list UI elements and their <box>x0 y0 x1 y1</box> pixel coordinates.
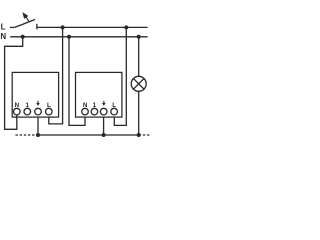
device A2 terminal N <box>82 108 89 115</box>
wire extension bus dashed left <box>16 134 39 136</box>
device A2 terminal 1 <box>91 108 98 115</box>
device A2 terminal label load arrow <box>102 101 106 106</box>
wire L feed device A1: down between boxes, left, up to L terminal <box>49 27 63 124</box>
wire lamp E1 top lead <box>138 37 140 77</box>
wire device A2 load drop <box>103 117 105 135</box>
device A1 terminal 1 <box>24 108 31 115</box>
lamp E1 <box>131 76 146 91</box>
wire device A1 load drop <box>37 117 39 135</box>
junction dot L to device A1 <box>61 25 65 29</box>
junction dot N to device A1 <box>21 35 25 39</box>
wire N rail <box>10 36 147 38</box>
wire N feed device A2: down between boxes, right, up <box>69 37 85 126</box>
device A2 terminal load <box>100 108 107 115</box>
wire N feed device A1: down, left, down, right, up <box>5 37 23 130</box>
device A2 box <box>76 72 122 117</box>
junction dot L to device A2 <box>124 25 128 29</box>
svg-text:N: N <box>0 32 6 41</box>
device A1 terminal N <box>13 108 20 115</box>
junction dot N to device A2 <box>67 35 71 39</box>
wire L rail left stub <box>10 26 15 28</box>
device A1 terminal label load arrow <box>36 101 40 106</box>
wire extension bus dashed right <box>139 134 150 136</box>
switch S1 contact tick <box>36 24 38 30</box>
device A1 box <box>12 72 58 117</box>
device A2 terminal L <box>111 108 118 115</box>
switch S1 lever <box>15 20 35 28</box>
wire L rail <box>37 26 148 28</box>
junction dot bus lamp <box>137 133 141 137</box>
switch S1 actuator arrow <box>22 12 29 22</box>
device A1 terminal L <box>46 108 53 115</box>
wire lamp E1 bottom lead <box>138 91 140 135</box>
svg-text:L: L <box>1 23 6 32</box>
wire L feed device A2: down right of box, left, up to L terminal <box>114 27 126 125</box>
device A1 terminal load <box>35 108 42 115</box>
wire extension bus solid <box>38 134 139 136</box>
junction dot bus device A2 <box>102 133 106 137</box>
junction dot bus device A1 <box>36 133 40 137</box>
junction dot N to lamp E1 <box>137 35 141 39</box>
